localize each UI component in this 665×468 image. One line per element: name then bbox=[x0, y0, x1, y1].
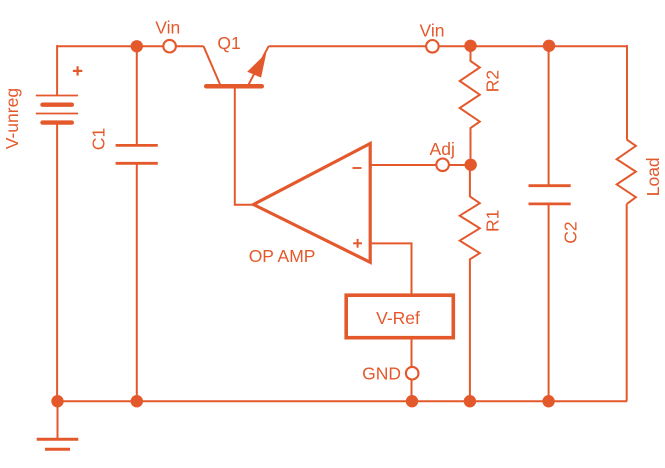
svg-text:Adj: Adj bbox=[430, 139, 455, 159]
node junction dot R2 top bbox=[464, 40, 476, 52]
svg-text:Vin: Vin bbox=[420, 21, 445, 41]
battery V-unreg bbox=[36, 96, 78, 123]
svg-text:V-Ref: V-Ref bbox=[376, 308, 420, 328]
Q1 base bar bbox=[206, 84, 262, 89]
node junction dot R1 bottom bbox=[464, 395, 476, 407]
node junction dot Adj bbox=[465, 159, 477, 171]
terminal Adj open circle bbox=[436, 159, 449, 172]
wire C2 branch upper bbox=[548, 46, 550, 186]
wire V-Ref to GND terminal and ground rail bbox=[411, 338, 413, 402]
svg-text:C1: C1 bbox=[89, 128, 109, 150]
terminal Vin output open circle bbox=[426, 40, 439, 53]
svg-text:C2: C2 bbox=[560, 221, 580, 243]
plus polarity mark bbox=[73, 66, 82, 75]
resistor R1 bbox=[460, 165, 480, 401]
op-amp minus sign bbox=[353, 167, 362, 169]
op-amp U1 triangle bbox=[254, 144, 371, 263]
wire load branch lower bbox=[626, 204, 628, 401]
wire non-inverting input to V-Ref bbox=[370, 243, 411, 295]
op-amp plus sign bbox=[353, 239, 362, 248]
node junction dot GND bottom bbox=[406, 395, 418, 407]
wire top rail left bbox=[57, 45, 204, 47]
svg-text:GND: GND bbox=[362, 363, 401, 383]
node junction dot C1 top bbox=[131, 40, 143, 52]
wire inverting input to Adj node bbox=[370, 164, 471, 166]
svg-text:OP AMP: OP AMP bbox=[249, 246, 316, 266]
transistor Q1 bbox=[204, 46, 269, 205]
resistor Load bbox=[617, 140, 636, 205]
node junction dot C2 bottom bbox=[542, 395, 554, 407]
wire load branch right side bbox=[626, 45, 628, 139]
capacitor C2 bbox=[529, 186, 571, 204]
svg-text:R1: R1 bbox=[483, 210, 503, 232]
terminal GND open circle bbox=[406, 367, 419, 380]
wire bottom rail bbox=[57, 400, 627, 402]
Q1 base lead bbox=[235, 86, 254, 204]
Q1 emitter arrow bbox=[247, 53, 266, 77]
wire C1 branch lower bbox=[136, 163, 138, 401]
Q1 emitter lead bbox=[248, 46, 269, 85]
capacitor C1 bbox=[116, 145, 158, 163]
svg-text:V-unreg: V-unreg bbox=[2, 88, 22, 149]
svg-text:Vin: Vin bbox=[155, 18, 180, 38]
node junction dot C2 top bbox=[543, 40, 555, 52]
wire left rail above battery bbox=[56, 45, 58, 95]
terminal Vin input open circle bbox=[163, 40, 176, 53]
node junction dot battery bottom bbox=[51, 395, 63, 407]
svg-text:Q1: Q1 bbox=[217, 33, 240, 53]
wire left rail below battery bbox=[56, 123, 58, 402]
svg-text:Load: Load bbox=[643, 157, 663, 196]
ground symbol bbox=[37, 401, 79, 449]
V-Ref box bbox=[346, 295, 453, 338]
wire C1 branch upper bbox=[136, 46, 138, 145]
wire C2 branch lower bbox=[548, 204, 550, 401]
resistor R2 bbox=[460, 46, 480, 165]
wire top rail right bbox=[269, 45, 627, 47]
svg-text:R2: R2 bbox=[483, 70, 503, 92]
node junction dot C1 bottom bbox=[131, 395, 143, 407]
Q1 collector lead bbox=[204, 46, 221, 85]
